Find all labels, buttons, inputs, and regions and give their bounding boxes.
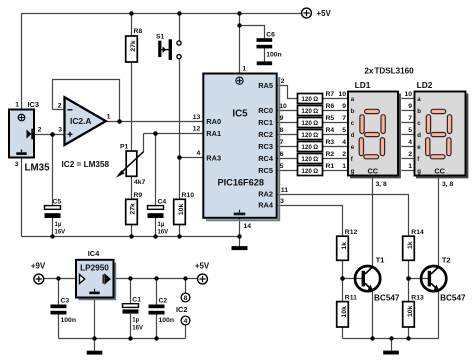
node op-amp output junction — [117, 119, 122, 124]
potentiometer P1 — [116, 151, 144, 178]
wire LD2 CC to T2 collector — [438, 176, 440, 267]
capacitor C4 polarized — [148, 206, 164, 218]
svg-text:2xTDSL3160: 2xTDSL3160 — [364, 66, 414, 75]
svg-text:IC2: IC2 — [176, 305, 188, 314]
wire T1 emitter to rail — [372, 291, 374, 339]
wire RA3 to PIC pin4 — [180, 157, 204, 159]
ground below PIC pin 14 — [232, 246, 248, 250]
svg-text:4: 4 — [342, 139, 346, 146]
switch S1 — [158, 39, 181, 60]
wire analog ground rail — [22, 236, 240, 238]
svg-text:g: g — [351, 169, 355, 175]
svg-text:13: 13 — [193, 114, 201, 121]
node C4 ground junction — [153, 234, 157, 238]
svg-text:b: b — [417, 109, 421, 115]
node R8 top rail junction — [129, 11, 133, 15]
wire R3 to LD1 pin e — [323, 146, 349, 148]
svg-text:RC3: RC3 — [258, 142, 273, 151]
svg-text:120 Ω: 120 Ω — [301, 156, 318, 163]
IC2 power pin 8 — [181, 293, 190, 302]
svg-text:RA1: RA1 — [206, 129, 221, 138]
node C2 ground junction — [154, 336, 158, 340]
svg-text:6: 6 — [280, 151, 284, 158]
resistor R1 120R — [298, 166, 323, 176]
svg-text:+5V: +5V — [195, 262, 210, 271]
wire R12 bottom to T1 base node — [342, 260, 344, 278]
svg-text:T1: T1 — [376, 256, 385, 265]
svg-text:8: 8 — [184, 295, 188, 302]
node T1 emitter rail junction — [370, 336, 374, 340]
svg-text:S1: S1 — [156, 34, 165, 41]
svg-text:C1: C1 — [132, 297, 141, 304]
wire RC5 pin5 to R1 — [277, 170, 298, 172]
wire LD2 pin d stub — [402, 134, 415, 136]
svg-text:R5: R5 — [326, 115, 335, 122]
node C1 ground junction — [128, 336, 132, 340]
resistor R9 — [126, 199, 138, 224]
wire C2 top lead — [156, 279, 158, 305]
svg-text:1µ: 1µ — [132, 317, 139, 323]
svg-text:27k: 27k — [130, 203, 137, 215]
svg-text:C6: C6 — [266, 31, 275, 38]
wire R14 bottom to T2 base node — [408, 260, 410, 278]
svg-text:CC: CC — [434, 167, 445, 176]
wire LM35 pin2 to op-amp + input — [34, 134, 65, 136]
wire C4 bottom lead — [155, 218, 157, 237]
svg-text:C2: C2 — [159, 298, 168, 305]
svg-text:10k: 10k — [407, 305, 414, 317]
svg-text:3: 3 — [58, 127, 62, 134]
svg-text:1k: 1k — [341, 242, 348, 250]
svg-text:2: 2 — [58, 102, 62, 109]
svg-text:8: 8 — [280, 127, 284, 134]
svg-text:R6: R6 — [326, 103, 335, 110]
display LD2 TDSL3160 — [415, 92, 468, 178]
svg-text:3: 3 — [280, 198, 284, 205]
svg-text:1: 1 — [15, 102, 19, 109]
resistor R10 — [174, 199, 186, 224]
svg-text:10k: 10k — [341, 306, 348, 318]
wire transistor emitter ground rail — [343, 338, 439, 340]
wire RC2 pin8 to R4 — [277, 134, 298, 136]
svg-text:PIC16F628: PIC16F628 — [218, 178, 264, 188]
svg-text:RC5: RC5 — [258, 166, 273, 175]
node R9 ground junction — [129, 234, 133, 238]
wire RC0 pin10 to R6 — [277, 110, 298, 112]
wire +5V top rail with LM35 pin1 drop — [22, 14, 302, 110]
node C6 branch junction — [237, 23, 241, 27]
svg-text:2: 2 — [342, 151, 346, 158]
wire S1 top lead — [179, 14, 181, 41]
svg-text:27k: 27k — [130, 40, 137, 52]
wire power section ground rail — [59, 338, 186, 340]
wire R13 top lead — [408, 279, 410, 302]
resistor R2 120R — [298, 154, 323, 164]
capacitor C5 polarized — [45, 206, 61, 218]
svg-text:5: 5 — [280, 163, 284, 170]
node C2 supply junction — [154, 276, 158, 280]
svg-text:9: 9 — [342, 103, 346, 110]
svg-text:10: 10 — [279, 103, 287, 110]
svg-text:P1: P1 — [120, 143, 129, 150]
resistor R5 120R — [298, 118, 323, 128]
resistor R6 120R — [298, 106, 323, 116]
wire IC4 output to +5V — [114, 278, 198, 280]
svg-text:1µ: 1µ — [158, 222, 165, 228]
svg-text:R4: R4 — [326, 127, 335, 134]
resistor R8 — [126, 36, 138, 62]
resistor R7 120R — [298, 94, 323, 104]
node R10 ground junction — [177, 234, 181, 238]
wire LD2 pin b stub — [402, 110, 415, 112]
svg-text:R13: R13 — [411, 295, 424, 302]
node pin14 ground junction — [237, 234, 241, 238]
label LD2 pin numbers — [404, 91, 412, 170]
sensor IC3 LM35 body — [9, 110, 34, 158]
node C3 supply junction — [56, 276, 60, 280]
ground below power rail — [87, 351, 103, 355]
wire R1 to LD1 pin g — [323, 170, 349, 172]
wire R10 bottom lead — [179, 225, 181, 237]
svg-text:C4: C4 — [158, 199, 167, 206]
svg-text:R10: R10 — [182, 192, 195, 199]
svg-text:16V: 16V — [132, 326, 143, 332]
wire IC2 pin4 stem — [185, 325, 187, 339]
wire LD1 CC to T1 collector — [372, 176, 374, 267]
wire ground stem of transistor rail — [391, 339, 393, 351]
node ground stem rail junction — [389, 336, 393, 340]
wire R4 to LD1 pin d — [323, 134, 349, 136]
svg-text:1µ: 1µ — [55, 222, 62, 228]
node RA3 S1 junction — [177, 155, 182, 160]
svg-text:RC2: RC2 — [258, 130, 273, 139]
wire R13 bottom lead — [408, 327, 410, 339]
svg-text:R12: R12 — [345, 229, 358, 236]
svg-text:2: 2 — [408, 151, 412, 158]
svg-text:2: 2 — [281, 78, 285, 85]
resistor R12 — [337, 236, 349, 260]
wire C5 top branch — [52, 135, 54, 206]
power symbol +5V output — [198, 274, 208, 284]
wire RC4 pin6 to R2 — [277, 158, 298, 160]
node R13 rail junction — [406, 336, 410, 340]
svg-text:1: 1 — [342, 163, 346, 170]
wire C3 bottom lead — [58, 315, 60, 339]
node T1 base junction — [340, 276, 345, 281]
capacitor C6 — [257, 38, 273, 48]
wire RC1 pin9 to R5 — [277, 122, 298, 124]
wire T1 base lead — [343, 278, 362, 280]
svg-text:16V: 16V — [158, 229, 169, 235]
op-amp U IC2.A — [65, 97, 106, 145]
svg-text:3: 3 — [15, 161, 19, 168]
wire R2 to LD1 pin f — [323, 158, 349, 160]
svg-text:T2: T2 — [442, 256, 451, 265]
resistor R13 — [403, 302, 415, 327]
wire C6 bottom lead to ground — [264, 48, 266, 61]
wire RA2 pin11 to R14 — [277, 195, 409, 237]
wire op-amp inverting input — [53, 109, 65, 111]
svg-text:4: 4 — [408, 139, 412, 146]
svg-text:10k: 10k — [178, 204, 185, 216]
svg-text:R2: R2 — [326, 151, 335, 158]
svg-text:120 Ω: 120 Ω — [301, 96, 318, 103]
wire S1 bottom lead down to R10 — [179, 59, 181, 200]
capacitor C1 polarized — [123, 304, 139, 314]
wire P1 wiper to RA1 line — [143, 134, 145, 153]
svg-text:IC3: IC3 — [28, 100, 40, 109]
wire LD2 pin c stub — [402, 122, 415, 124]
node S1 top rail junction — [177, 11, 181, 15]
svg-text:C3: C3 — [61, 298, 70, 305]
wire RA1 to PIC pin12 — [144, 133, 204, 135]
svg-text:16V: 16V — [55, 229, 66, 235]
display LD1 TDSL3160 — [348, 92, 400, 178]
svg-text:RA4: RA4 — [258, 201, 274, 210]
svg-text:CC: CC — [367, 167, 378, 176]
svg-text:IC2 = LM358: IC2 = LM358 — [62, 160, 110, 169]
svg-text:5: 5 — [342, 127, 346, 134]
svg-text:120 Ω: 120 Ω — [301, 108, 318, 115]
wire IC2 pin8 stem — [185, 279, 187, 294]
wire LD2 pin e stub — [402, 146, 415, 148]
svg-text:1k: 1k — [407, 241, 414, 249]
IC2 power pin 4 — [181, 316, 190, 325]
svg-text:R11: R11 — [345, 295, 357, 302]
wire C5 bottom lead — [52, 218, 54, 237]
wire P1 bottom to R9 — [131, 176, 133, 199]
svg-text:R8: R8 — [134, 28, 143, 35]
wire R7 to LD1 pin a — [323, 98, 349, 100]
svg-text:RA5: RA5 — [258, 81, 273, 90]
node C5 ground junction — [50, 234, 54, 238]
svg-text:LD2: LD2 — [417, 80, 433, 90]
wire PIC pin14 to ground — [239, 218, 241, 246]
svg-text:2: 2 — [38, 126, 42, 133]
node C1 supply junction — [128, 276, 132, 280]
svg-text:12: 12 — [193, 126, 201, 133]
svg-text:7: 7 — [280, 139, 284, 146]
wire PIC pin1 supply column — [239, 14, 241, 74]
svg-text:120 Ω: 120 Ω — [301, 168, 318, 175]
wire IC4 ground pin — [94, 298, 96, 339]
svg-text:LD1: LD1 — [355, 80, 371, 90]
resistor R4 120R — [298, 130, 323, 140]
wire R11 bottom lead — [342, 327, 344, 339]
svg-text:RA2: RA2 — [258, 189, 273, 198]
svg-text:R9: R9 — [134, 192, 143, 199]
wire LM35 pin3 to ground rail — [21, 158, 23, 237]
node IC4 ground junction — [92, 336, 96, 340]
wire R8 top lead from +5V rail — [131, 14, 133, 37]
transistor Q T2 BC547 — [421, 266, 446, 291]
wire C4 column from RA1 node — [155, 134, 157, 206]
svg-text:10: 10 — [404, 91, 412, 98]
node RA1 C4 junction — [153, 131, 158, 136]
wire ground stem of power rail — [94, 339, 96, 351]
wire LD2 pin f stub — [402, 158, 415, 160]
svg-text:RC1: RC1 — [258, 118, 273, 127]
svg-text:IC4: IC4 — [88, 249, 100, 258]
wire T2 emitter to rail — [438, 291, 440, 339]
node IC2 pin8 supply junction — [183, 276, 187, 280]
power symbol +9V — [34, 274, 44, 284]
wire +9V to IC4 input — [43, 278, 76, 280]
wire C2 bottom lead — [156, 315, 158, 339]
svg-text:10: 10 — [338, 91, 346, 98]
svg-text:1: 1 — [408, 163, 412, 170]
wire C6 branch — [240, 26, 265, 39]
svg-text:1: 1 — [107, 114, 111, 121]
svg-text:11: 11 — [281, 187, 288, 194]
svg-text:LP2950: LP2950 — [80, 264, 109, 273]
resistor R3 120R — [298, 142, 323, 152]
svg-text:IC5: IC5 — [232, 109, 248, 120]
wire C1 top lead — [130, 279, 132, 304]
wire R6 to LD1 pin b — [323, 110, 349, 112]
svg-text:LM35: LM35 — [25, 162, 51, 173]
svg-text:3, 8: 3, 8 — [442, 181, 454, 188]
resistor R11 — [337, 302, 349, 327]
svg-text:C5: C5 — [53, 199, 62, 206]
svg-text:4: 4 — [184, 318, 188, 325]
svg-text:9: 9 — [408, 103, 412, 110]
wire R9 bottom lead — [131, 225, 133, 237]
svg-text:R7: R7 — [326, 91, 335, 98]
capacitor C3 — [51, 305, 67, 315]
regulator IC4 LP2950 — [76, 260, 115, 299]
svg-text:100n: 100n — [159, 317, 175, 324]
svg-text:R14: R14 — [411, 229, 424, 236]
wire C3 top lead — [58, 279, 60, 305]
svg-text:4k7: 4k7 — [134, 179, 146, 186]
svg-text:14: 14 — [244, 223, 252, 230]
svg-text:R1: R1 — [326, 163, 335, 170]
node PIC pin1 rail junction — [237, 11, 241, 15]
svg-text:3, 8: 3, 8 — [376, 181, 388, 188]
svg-text:120 Ω: 120 Ω — [301, 120, 318, 127]
svg-text:RC4: RC4 — [258, 154, 274, 163]
svg-text:d: d — [417, 133, 421, 139]
svg-text:IC2.A: IC2.A — [70, 116, 91, 126]
wire C1 bottom lead — [130, 314, 132, 339]
svg-text:100n: 100n — [61, 317, 77, 324]
svg-text:1: 1 — [243, 66, 247, 73]
wire feedback loop pin2 to output — [53, 80, 120, 122]
wire R8 bottom to P1 top — [131, 62, 133, 151]
capacitor C2 — [149, 305, 165, 315]
microcontroller IC5 PIC16F628 — [203, 74, 279, 221]
svg-text:120 Ω: 120 Ω — [301, 132, 318, 139]
wire LD2 pin g stub — [402, 170, 415, 172]
svg-text:+5V: +5V — [317, 9, 332, 18]
svg-text:9: 9 — [280, 115, 284, 122]
node T2 base junction — [406, 276, 411, 281]
wire op-amp output to PIC RA0 — [105, 121, 204, 123]
svg-text:BC547: BC547 — [440, 294, 466, 303]
svg-text:d: d — [351, 133, 355, 139]
svg-text:120 Ω: 120 Ω — [301, 144, 318, 151]
wire RC3 pin7 to R3 — [277, 146, 298, 148]
resistor R14 — [403, 236, 415, 260]
wire R11 top lead — [342, 279, 344, 302]
wire T2 base lead — [409, 278, 429, 280]
svg-text:g: g — [417, 169, 421, 175]
node LM35 output junction — [50, 132, 55, 137]
wire RA5 pin2 jog to R7 — [277, 86, 298, 99]
svg-text:5: 5 — [408, 127, 412, 134]
svg-text:BC547: BC547 — [374, 294, 400, 303]
svg-text:7: 7 — [408, 115, 412, 122]
svg-text:RC0: RC0 — [258, 106, 273, 115]
svg-text:RA3: RA3 — [206, 153, 221, 162]
power symbol +5V top — [302, 8, 312, 18]
ground below transistor rail — [383, 351, 399, 355]
wire RA4 pin3 to R12 — [277, 206, 343, 237]
svg-text:b: b — [351, 109, 355, 115]
ground below C6 — [257, 61, 272, 65]
svg-text:100n: 100n — [266, 52, 282, 59]
svg-text:R3: R3 — [326, 139, 335, 146]
svg-text:+9V: +9V — [31, 262, 46, 271]
svg-text:4: 4 — [197, 150, 201, 157]
svg-text:RA0: RA0 — [206, 117, 221, 126]
wire LD2 pin a stub — [402, 98, 415, 100]
svg-text:7: 7 — [342, 115, 346, 122]
wire R5 to LD1 pin c — [323, 122, 349, 124]
transistor Q T1 BC547 — [355, 266, 380, 291]
